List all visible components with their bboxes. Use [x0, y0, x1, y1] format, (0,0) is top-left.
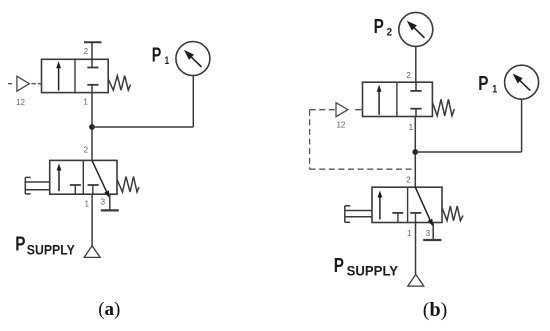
svg-text:(a): (a): [98, 299, 120, 320]
svg-text:1: 1: [492, 83, 497, 95]
svg-text:2: 2: [406, 71, 411, 80]
svg-text:1: 1: [407, 229, 412, 238]
svg-text:1: 1: [83, 98, 88, 107]
svg-text:P: P: [152, 45, 162, 67]
svg-text:3: 3: [426, 229, 431, 238]
svg-text:12: 12: [336, 121, 345, 130]
svg-text:2: 2: [387, 26, 393, 38]
svg-text:P: P: [15, 233, 25, 255]
svg-text:P: P: [374, 16, 384, 38]
svg-text:1: 1: [84, 200, 89, 209]
svg-text:(b): (b): [423, 299, 447, 321]
svg-text:SUPPLY: SUPPLY: [27, 241, 76, 257]
svg-text:SUPPLY: SUPPLY: [347, 262, 399, 278]
svg-text:2: 2: [84, 145, 89, 154]
svg-text:P: P: [334, 255, 344, 277]
svg-text:3: 3: [101, 198, 106, 207]
svg-text:1: 1: [165, 55, 170, 67]
svg-text:P: P: [478, 73, 488, 95]
svg-text:2: 2: [84, 47, 89, 56]
svg-text:12: 12: [16, 98, 25, 107]
svg-text:1: 1: [409, 123, 414, 132]
svg-text:2: 2: [406, 175, 411, 184]
